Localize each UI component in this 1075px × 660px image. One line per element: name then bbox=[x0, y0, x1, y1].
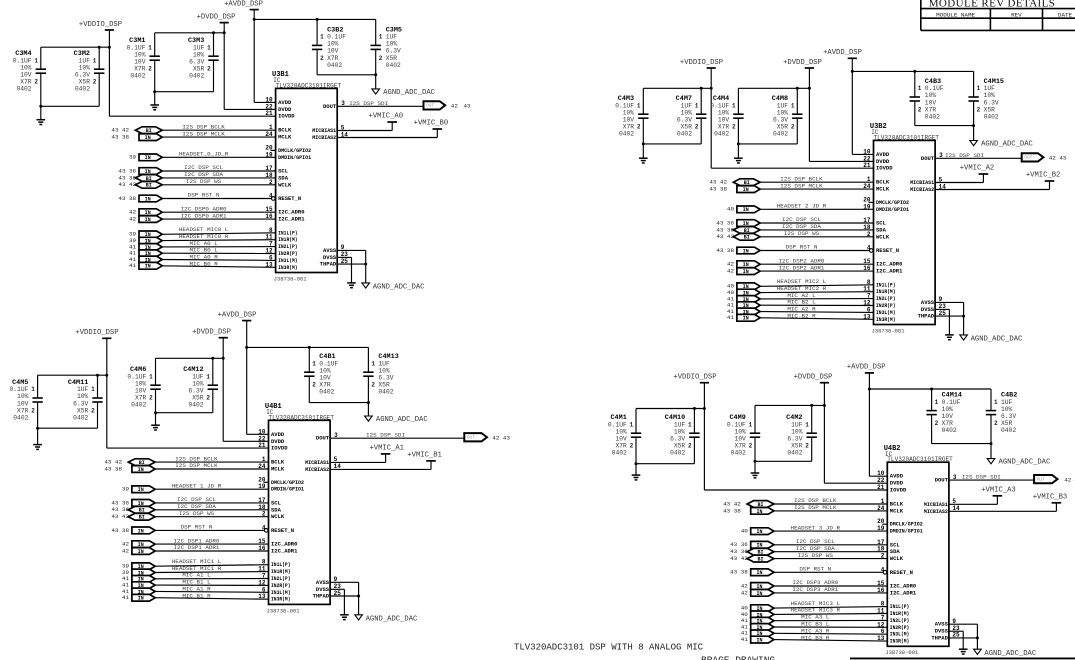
svg-text:6.3V: 6.3V bbox=[1001, 413, 1016, 420]
svg-text:6.3V: 6.3V bbox=[75, 72, 90, 79]
svg-text:MICBIAS2: MICBIAS2 bbox=[924, 508, 948, 515]
svg-text:0402: 0402 bbox=[386, 62, 401, 69]
svg-text:3: 3 bbox=[953, 474, 957, 481]
svg-text:0402: 0402 bbox=[619, 131, 634, 138]
svg-text:2: 2 bbox=[206, 395, 210, 402]
svg-text:BI: BI bbox=[744, 235, 750, 241]
svg-text:AGND_ADC_DAC: AGND_ADC_DAC bbox=[373, 284, 425, 292]
svg-text:6.3V: 6.3V bbox=[386, 48, 401, 55]
svg-text:10%: 10% bbox=[791, 428, 803, 435]
svg-text:BPAGE DRAWING: BPAGE DRAWING bbox=[701, 654, 775, 660]
svg-text:MICBIAS1: MICBIAS1 bbox=[305, 459, 330, 466]
svg-text:43 42: 43 42 bbox=[730, 555, 748, 562]
svg-text:43 42: 43 42 bbox=[111, 513, 129, 520]
svg-text:42: 42 bbox=[492, 435, 500, 442]
svg-text:DOUT: DOUT bbox=[323, 103, 337, 110]
svg-text:I2C DSP0 ADR1: I2C DSP0 ADR1 bbox=[181, 212, 227, 219]
svg-text:43 38: 43 38 bbox=[111, 527, 129, 534]
svg-text:6.3V: 6.3V bbox=[677, 117, 692, 124]
svg-text:0402: 0402 bbox=[731, 450, 746, 457]
svg-text:+VMIC_B0: +VMIC_B0 bbox=[414, 120, 449, 128]
svg-text:WCLK: WCLK bbox=[278, 181, 292, 188]
svg-text:3: 3 bbox=[341, 100, 345, 107]
svg-text:DMDIN/GPIO1: DMDIN/GPIO1 bbox=[876, 206, 910, 213]
svg-text:DMDIN/GPIO1: DMDIN/GPIO1 bbox=[271, 486, 305, 493]
svg-text:6.3V: 6.3V bbox=[670, 436, 685, 443]
svg-text:41: 41 bbox=[727, 314, 735, 321]
svg-text:+VMIC_B2: +VMIC_B2 bbox=[1026, 172, 1061, 180]
svg-text:0.1UF: 0.1UF bbox=[608, 421, 627, 428]
svg-text:0402: 0402 bbox=[378, 389, 393, 396]
svg-text:+DVDD_DSP: +DVDD_DSP bbox=[794, 374, 833, 382]
svg-text:MIC B2 R: MIC B2 R bbox=[787, 313, 816, 320]
svg-text:2: 2 bbox=[31, 407, 35, 414]
svg-text:J38738-001: J38738-001 bbox=[872, 327, 906, 334]
svg-text:J38738-001: J38738-001 bbox=[274, 275, 308, 282]
svg-text:MICBIAS2: MICBIAS2 bbox=[910, 186, 934, 193]
svg-text:43 38: 43 38 bbox=[104, 465, 122, 472]
svg-text:0.1UF: 0.1UF bbox=[127, 373, 146, 380]
svg-text:I2S DSP WS: I2S DSP WS bbox=[798, 552, 834, 559]
svg-text:AGND_ADC_DAC: AGND_ADC_DAC bbox=[971, 336, 1023, 344]
svg-text:0402: 0402 bbox=[327, 62, 342, 69]
svg-text:AGND_ADC_DAC: AGND_ADC_DAC bbox=[383, 89, 435, 97]
svg-text:43 38: 43 38 bbox=[709, 186, 727, 193]
svg-text:X5R: X5R bbox=[1001, 420, 1013, 427]
svg-text:+DVDD_DSP: +DVDD_DSP bbox=[192, 329, 231, 337]
svg-text:39: 39 bbox=[122, 486, 130, 493]
svg-text:14: 14 bbox=[334, 463, 342, 470]
svg-text:10%: 10% bbox=[193, 51, 205, 58]
svg-text:IN: IN bbox=[756, 591, 762, 597]
svg-text:2: 2 bbox=[732, 124, 736, 131]
svg-text:43 38: 43 38 bbox=[118, 195, 136, 202]
svg-text:0.1UF: 0.1UF bbox=[127, 44, 146, 51]
svg-text:1: 1 bbox=[935, 399, 939, 406]
svg-text:9: 9 bbox=[939, 296, 943, 303]
svg-text:43 38: 43 38 bbox=[716, 247, 734, 254]
svg-text:X7R: X7R bbox=[623, 124, 635, 131]
svg-text:10%: 10% bbox=[319, 367, 331, 374]
svg-text:DOUT: DOUT bbox=[316, 435, 330, 442]
svg-text:2: 2 bbox=[312, 382, 316, 389]
svg-text:0402: 0402 bbox=[773, 131, 788, 138]
svg-text:10%: 10% bbox=[17, 393, 29, 400]
svg-text:MCLK: MCLK bbox=[271, 466, 285, 473]
svg-text:0402: 0402 bbox=[1001, 427, 1016, 434]
svg-text:MICBIAS1: MICBIAS1 bbox=[924, 501, 949, 508]
svg-text:MCLK: MCLK bbox=[890, 507, 904, 514]
svg-text:IN: IN bbox=[743, 187, 749, 193]
svg-text:IN: IN bbox=[743, 316, 749, 322]
svg-text:10%: 10% bbox=[623, 109, 635, 116]
svg-text:10%: 10% bbox=[378, 367, 390, 374]
svg-text:+VMIC_A2: +VMIC_A2 bbox=[960, 165, 995, 173]
svg-text:14: 14 bbox=[939, 183, 947, 190]
svg-text:10%: 10% bbox=[734, 428, 746, 435]
svg-text:+DVDD_DSP: +DVDD_DSP bbox=[783, 59, 822, 67]
svg-text:10%: 10% bbox=[79, 64, 91, 71]
svg-text:I2C_ADR1: I2C_ADR1 bbox=[278, 216, 305, 223]
svg-text:RESET_N: RESET_N bbox=[271, 527, 294, 534]
svg-text:43: 43 bbox=[1059, 155, 1067, 162]
svg-text:1: 1 bbox=[732, 102, 736, 109]
svg-text:+AVDD_DSP: +AVDD_DSP bbox=[823, 49, 862, 57]
svg-text:IN: IN bbox=[145, 264, 151, 270]
svg-text:2: 2 bbox=[93, 79, 97, 86]
svg-text:2: 2 bbox=[91, 407, 95, 414]
svg-text:1: 1 bbox=[91, 386, 95, 393]
svg-text:0402: 0402 bbox=[714, 131, 729, 138]
svg-text:IN3R(M): IN3R(M) bbox=[876, 316, 896, 323]
svg-text:43 42: 43 42 bbox=[716, 233, 734, 240]
svg-text:10V: 10V bbox=[20, 72, 32, 79]
svg-text:9: 9 bbox=[952, 618, 956, 625]
svg-text:10%: 10% bbox=[192, 380, 204, 387]
svg-text:43 38: 43 38 bbox=[730, 569, 748, 576]
svg-text:+VMIC_A1: +VMIC_A1 bbox=[369, 444, 404, 452]
svg-text:IN: IN bbox=[138, 528, 144, 534]
svg-text:25: 25 bbox=[952, 632, 960, 639]
svg-text:+VMIC_B1: +VMIC_B1 bbox=[407, 451, 442, 459]
svg-text:MODULE NAME: MODULE NAME bbox=[936, 11, 975, 18]
svg-text:OUT: OUT bbox=[1024, 155, 1032, 161]
svg-text:IOVDD: IOVDD bbox=[876, 165, 893, 172]
svg-text:+VDDIO_DSP: +VDDIO_DSP bbox=[75, 329, 118, 337]
svg-text:2: 2 bbox=[791, 124, 795, 131]
svg-text:2: 2 bbox=[320, 55, 324, 62]
svg-text:IN: IN bbox=[138, 596, 144, 602]
svg-text:2: 2 bbox=[994, 420, 998, 427]
svg-text:42: 42 bbox=[129, 216, 137, 223]
svg-text:THPAD: THPAD bbox=[918, 313, 935, 320]
svg-text:1: 1 bbox=[637, 102, 641, 109]
svg-text:39: 39 bbox=[129, 154, 137, 161]
svg-text:0.1UF: 0.1UF bbox=[319, 360, 338, 367]
svg-text:I2C DSP2 ADR1: I2C DSP2 ADR1 bbox=[779, 264, 825, 271]
svg-text:X5R: X5R bbox=[378, 382, 390, 389]
svg-text:43 38: 43 38 bbox=[111, 134, 129, 141]
svg-text:DSP RST N: DSP RST N bbox=[188, 192, 220, 199]
svg-text:43 42: 43 42 bbox=[118, 181, 136, 188]
svg-text:+VDDIO_DSP: +VDDIO_DSP bbox=[79, 21, 122, 29]
svg-text:0402: 0402 bbox=[612, 450, 627, 457]
svg-text:0402: 0402 bbox=[984, 113, 999, 120]
svg-text:DMDIN/GPIO1: DMDIN/GPIO1 bbox=[890, 528, 924, 535]
svg-text:1UF: 1UF bbox=[984, 85, 996, 92]
svg-text:10%: 10% bbox=[134, 51, 146, 58]
svg-text:THPAD: THPAD bbox=[320, 261, 337, 268]
svg-text:IN: IN bbox=[756, 570, 762, 576]
svg-text:2: 2 bbox=[379, 55, 383, 62]
svg-text:WCLK: WCLK bbox=[890, 555, 904, 562]
svg-text:1: 1 bbox=[206, 373, 210, 380]
svg-text:1UF: 1UF bbox=[674, 421, 686, 428]
svg-text:40: 40 bbox=[741, 528, 749, 535]
svg-text:IN3R(M): IN3R(M) bbox=[271, 596, 291, 603]
svg-text:BI: BI bbox=[757, 557, 763, 563]
svg-text:BI: BI bbox=[146, 183, 152, 189]
svg-text:2: 2 bbox=[688, 443, 692, 450]
svg-text:9: 9 bbox=[341, 244, 345, 251]
svg-text:I2S DSP MCLK: I2S DSP MCLK bbox=[794, 504, 837, 511]
svg-text:0402: 0402 bbox=[188, 402, 203, 409]
svg-text:41: 41 bbox=[129, 262, 137, 269]
svg-text:1: 1 bbox=[749, 421, 753, 428]
svg-text:MICBIAS1: MICBIAS1 bbox=[910, 179, 935, 186]
svg-text:40: 40 bbox=[727, 206, 735, 213]
svg-text:10%: 10% bbox=[327, 41, 339, 48]
svg-text:0.1UF: 0.1UF bbox=[9, 386, 28, 393]
svg-text:10%: 10% bbox=[20, 64, 32, 71]
svg-text:10%: 10% bbox=[942, 406, 954, 413]
svg-text:IN: IN bbox=[743, 269, 749, 275]
svg-text:0402: 0402 bbox=[319, 389, 334, 396]
svg-text:AVSS: AVSS bbox=[935, 621, 949, 628]
svg-text:0402: 0402 bbox=[73, 414, 88, 421]
svg-text:I2C_ADR1: I2C_ADR1 bbox=[890, 589, 917, 596]
svg-text:1UF: 1UF bbox=[1001, 399, 1013, 406]
svg-text:IN: IN bbox=[756, 509, 762, 515]
svg-text:0.1UF: 0.1UF bbox=[925, 85, 944, 92]
svg-text:43: 43 bbox=[464, 103, 472, 110]
svg-text:10%: 10% bbox=[984, 92, 996, 99]
svg-text:0402: 0402 bbox=[677, 131, 692, 138]
svg-text:X5R: X5R bbox=[386, 55, 398, 62]
svg-text:X7R: X7R bbox=[942, 420, 954, 427]
svg-text:25: 25 bbox=[334, 590, 342, 597]
svg-text:10V: 10V bbox=[134, 59, 146, 66]
svg-text:X7R: X7R bbox=[327, 55, 339, 62]
svg-text:MODULE REV DETAILS: MODULE REV DETAILS bbox=[929, 0, 1056, 9]
svg-text:TLV320ADC3101 DSP WITH 8 ANALO: TLV320ADC3101 DSP WITH 8 ANALOG MIC bbox=[514, 642, 704, 652]
svg-text:IN: IN bbox=[138, 467, 144, 473]
svg-text:3: 3 bbox=[334, 432, 338, 439]
svg-text:0.1UF: 0.1UF bbox=[327, 34, 346, 41]
svg-text:1: 1 bbox=[994, 399, 998, 406]
svg-text:DMDIN/GPIO1: DMDIN/GPIO1 bbox=[278, 154, 312, 161]
svg-text:1: 1 bbox=[695, 102, 699, 109]
svg-text:10V: 10V bbox=[17, 400, 29, 407]
svg-text:42: 42 bbox=[122, 547, 130, 554]
svg-text:+AVDD_DSP: +AVDD_DSP bbox=[847, 364, 886, 372]
svg-text:OUT: OUT bbox=[1037, 476, 1045, 482]
svg-text:I2S DSP SDI: I2S DSP SDI bbox=[962, 474, 1001, 481]
svg-text:0402: 0402 bbox=[670, 450, 685, 457]
svg-text:OUT: OUT bbox=[467, 434, 475, 440]
svg-text:10%: 10% bbox=[925, 92, 937, 99]
svg-text:25: 25 bbox=[939, 310, 947, 317]
svg-text:MICBIAS2: MICBIAS2 bbox=[305, 466, 329, 473]
svg-text:WCLK: WCLK bbox=[271, 513, 285, 520]
svg-text:0402: 0402 bbox=[75, 86, 90, 93]
svg-text:AGND_ADC_DAC: AGND_ADC_DAC bbox=[981, 140, 1033, 148]
svg-text:DSP RST N: DSP RST N bbox=[181, 524, 213, 531]
svg-text:DSP RST N: DSP RST N bbox=[786, 244, 818, 251]
svg-text:0402: 0402 bbox=[189, 73, 204, 80]
svg-text:2: 2 bbox=[695, 124, 699, 131]
svg-text:RESET_N: RESET_N bbox=[278, 195, 301, 202]
svg-text:BI: BI bbox=[139, 515, 145, 521]
svg-text:X7R: X7R bbox=[615, 443, 627, 450]
svg-text:IN3R(M): IN3R(M) bbox=[278, 264, 298, 271]
svg-text:J38738-001: J38738-001 bbox=[885, 649, 919, 656]
svg-text:IN: IN bbox=[145, 217, 151, 223]
svg-text:MIC B0 R: MIC B0 R bbox=[189, 261, 218, 268]
svg-text:DSP RST N: DSP RST N bbox=[799, 566, 831, 573]
svg-text:0.1UF: 0.1UF bbox=[942, 399, 961, 406]
svg-text:AGND_ADC_DAC: AGND_ADC_DAC bbox=[376, 416, 428, 424]
svg-text:14: 14 bbox=[341, 131, 349, 138]
svg-text:+VMIC_B3: +VMIC_B3 bbox=[1033, 493, 1068, 501]
svg-text:X5R: X5R bbox=[77, 407, 89, 414]
svg-text:IN: IN bbox=[756, 529, 762, 535]
svg-text:1UF: 1UF bbox=[79, 57, 91, 64]
svg-text:I2C_ADR1: I2C_ADR1 bbox=[271, 548, 298, 555]
svg-text:1: 1 bbox=[371, 360, 375, 367]
svg-text:10%: 10% bbox=[135, 380, 147, 387]
svg-text:0402: 0402 bbox=[130, 73, 145, 80]
svg-text:+AVDD_DSP: +AVDD_DSP bbox=[218, 311, 257, 319]
svg-text:0.1UF: 0.1UF bbox=[727, 421, 746, 428]
svg-text:X5R: X5R bbox=[193, 66, 205, 73]
svg-text:9: 9 bbox=[334, 576, 338, 583]
svg-text:AVDD: AVDD bbox=[271, 431, 285, 438]
svg-text:AGND_ADC_DAC: AGND_ADC_DAC bbox=[366, 615, 418, 623]
svg-text:10%: 10% bbox=[681, 109, 693, 116]
svg-text:3: 3 bbox=[939, 152, 943, 159]
svg-text:6.3V: 6.3V bbox=[984, 99, 999, 106]
svg-text:2: 2 bbox=[34, 79, 38, 86]
svg-text:IN3R(M): IN3R(M) bbox=[890, 638, 910, 645]
svg-text:+VMIC_A0: +VMIC_A0 bbox=[369, 113, 404, 121]
svg-text:41: 41 bbox=[122, 594, 130, 601]
svg-text:1UF: 1UF bbox=[681, 102, 693, 109]
svg-text:I2C DSP3 ADR1: I2C DSP3 ADR1 bbox=[792, 586, 838, 593]
svg-text:I2S DSP MCLK: I2S DSP MCLK bbox=[175, 462, 218, 469]
svg-text:X7R: X7R bbox=[20, 79, 32, 86]
svg-text:THPAD: THPAD bbox=[931, 634, 948, 641]
svg-text:1UF: 1UF bbox=[791, 421, 803, 428]
svg-text:6.3V: 6.3V bbox=[773, 117, 788, 124]
svg-text:6.3V: 6.3V bbox=[189, 59, 204, 66]
svg-text:X7R: X7R bbox=[734, 443, 746, 450]
svg-text:I2C_ADR1: I2C_ADR1 bbox=[876, 268, 903, 275]
svg-text:X5R: X5R bbox=[674, 443, 686, 450]
svg-text:IN: IN bbox=[138, 487, 144, 493]
svg-text:IOVDD: IOVDD bbox=[278, 113, 295, 120]
svg-text:REV: REV bbox=[1011, 11, 1022, 18]
svg-text:DATE: DATE bbox=[1058, 11, 1073, 18]
svg-text:10%: 10% bbox=[777, 109, 789, 116]
svg-text:AVSS: AVSS bbox=[323, 247, 337, 254]
svg-text:2: 2 bbox=[637, 124, 641, 131]
svg-text:J38738-001: J38738-001 bbox=[267, 607, 301, 614]
svg-text:10V: 10V bbox=[925, 99, 937, 106]
svg-text:14: 14 bbox=[952, 505, 960, 512]
svg-text:+DVDD_DSP: +DVDD_DSP bbox=[197, 13, 236, 21]
svg-text:2: 2 bbox=[207, 66, 211, 73]
svg-text:5: 5 bbox=[334, 456, 338, 463]
svg-text:+VDDIO_DSP: +VDDIO_DSP bbox=[673, 374, 716, 382]
svg-text:0.1UF: 0.1UF bbox=[710, 102, 729, 109]
svg-text:I2S DSP WS: I2S DSP WS bbox=[784, 230, 820, 237]
svg-text:1UF: 1UF bbox=[193, 44, 205, 51]
svg-text:10%: 10% bbox=[386, 41, 398, 48]
svg-text:10V: 10V bbox=[734, 436, 746, 443]
svg-text:6.3V: 6.3V bbox=[73, 400, 88, 407]
svg-text:2: 2 bbox=[977, 106, 981, 113]
svg-text:MIC B1 R: MIC B1 R bbox=[182, 592, 211, 599]
svg-text:MICBIAS2: MICBIAS2 bbox=[312, 134, 336, 141]
svg-text:6.3V: 6.3V bbox=[188, 388, 203, 395]
svg-text:1: 1 bbox=[805, 421, 809, 428]
svg-text:1: 1 bbox=[31, 386, 35, 393]
svg-text:MIC B3 R: MIC B3 R bbox=[801, 634, 830, 641]
svg-text:0402: 0402 bbox=[925, 113, 940, 120]
svg-text:10%: 10% bbox=[77, 393, 89, 400]
svg-text:X5R: X5R bbox=[777, 124, 789, 131]
svg-text:IN: IN bbox=[145, 196, 151, 202]
svg-text:2: 2 bbox=[371, 382, 375, 389]
svg-text:X7R: X7R bbox=[135, 395, 147, 402]
svg-text:1: 1 bbox=[379, 34, 383, 41]
svg-text:RESET_N: RESET_N bbox=[890, 569, 913, 576]
svg-text:5: 5 bbox=[939, 176, 943, 183]
svg-text:MICBIAS1: MICBIAS1 bbox=[312, 127, 337, 134]
svg-text:DOUT: DOUT bbox=[935, 477, 949, 484]
svg-text:10V: 10V bbox=[135, 388, 147, 395]
svg-text:IOVDD: IOVDD bbox=[890, 487, 907, 494]
svg-text:10%: 10% bbox=[718, 109, 730, 116]
svg-text:X5R: X5R bbox=[791, 443, 803, 450]
svg-text:I2S DSP MCLK: I2S DSP MCLK bbox=[182, 130, 225, 137]
svg-text:I2C DSP1 ADR1: I2C DSP1 ADR1 bbox=[174, 544, 220, 551]
svg-text:1: 1 bbox=[918, 85, 922, 92]
svg-text:IN: IN bbox=[145, 135, 151, 141]
svg-text:IN: IN bbox=[743, 207, 749, 213]
svg-text:0402: 0402 bbox=[131, 402, 146, 409]
svg-text:HEADSET_0_JD_R: HEADSET_0_JD_R bbox=[179, 151, 229, 158]
svg-text:AVDD: AVDD bbox=[278, 99, 292, 106]
svg-text:5: 5 bbox=[341, 124, 345, 131]
svg-text:1UF: 1UF bbox=[777, 102, 789, 109]
svg-text:X5R: X5R bbox=[79, 79, 91, 86]
svg-text:OUT: OUT bbox=[426, 103, 434, 109]
svg-text:+AVDD_DSP: +AVDD_DSP bbox=[224, 0, 263, 8]
svg-text:42: 42 bbox=[741, 589, 749, 596]
svg-text:41: 41 bbox=[741, 636, 749, 643]
svg-text:X5R: X5R bbox=[984, 106, 996, 113]
svg-text:X7R: X7R bbox=[17, 407, 29, 414]
svg-text:43: 43 bbox=[503, 435, 511, 442]
svg-text:42: 42 bbox=[451, 103, 459, 110]
svg-text:HEADSET 3 JD R: HEADSET 3 JD R bbox=[791, 524, 841, 531]
svg-text:X5R: X5R bbox=[192, 395, 204, 402]
svg-text:X7R: X7R bbox=[319, 382, 331, 389]
svg-text:10%: 10% bbox=[674, 428, 686, 435]
svg-text:AVSS: AVSS bbox=[316, 579, 330, 586]
svg-text:I2S DSP SDI: I2S DSP SDI bbox=[366, 432, 405, 439]
svg-text:X5R: X5R bbox=[681, 124, 693, 131]
svg-text:AVDD: AVDD bbox=[876, 151, 890, 158]
svg-text:I2S DSP WS: I2S DSP WS bbox=[186, 178, 222, 185]
svg-text:1: 1 bbox=[93, 57, 97, 64]
svg-text:HEADSET 2 JD R: HEADSET 2 JD R bbox=[777, 203, 827, 210]
svg-text:I2S DSP SDI: I2S DSP SDI bbox=[945, 152, 984, 159]
svg-text:I2S DSP MCLK: I2S DSP MCLK bbox=[780, 182, 823, 189]
svg-text:AGND_ADC_DAC: AGND_ADC_DAC bbox=[984, 650, 1036, 658]
